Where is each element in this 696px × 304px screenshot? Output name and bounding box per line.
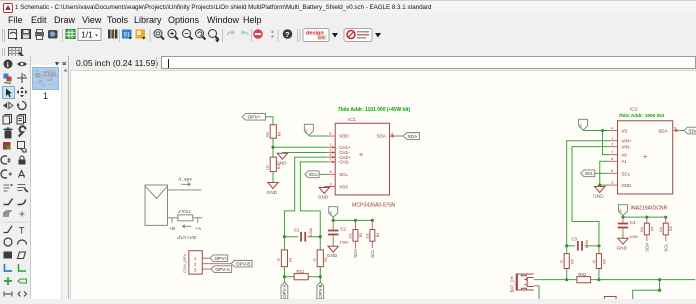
flag SDA (IC2) — [684, 127, 696, 134]
shunt RS1 (info drawing) — [167, 209, 202, 223]
svg-text:3: 3 — [611, 181, 613, 185]
svg-text:C2: C2 — [340, 226, 346, 231]
svg-text:IC2: IC2 — [630, 106, 638, 112]
current direction arrow — [182, 225, 191, 228]
svg-text:GND: GND — [276, 161, 287, 167]
flag OPV+ (connector) — [210, 255, 228, 262]
flag OPV-A (net) — [281, 282, 288, 299]
svg-text:GND: GND — [621, 183, 632, 188]
svg-text:VS: VS — [621, 129, 627, 134]
junction C2 top — [332, 219, 335, 222]
BAT_CH pin stubs — [524, 280, 537, 286]
designlink button — [303, 29, 329, 42]
pin dot SDA (IC2) — [675, 129, 677, 131]
svg-text:100n: 100n — [584, 240, 589, 249]
svg-text:SDA: SDA — [658, 129, 667, 134]
pin dot SDA (IC1) — [392, 135, 394, 137]
svg-text:8: 8 — [330, 153, 332, 157]
wire R1 to flag — [283, 267, 285, 282]
undo/redo disabled — [227, 31, 234, 36]
svg-text:8: 8 — [611, 157, 613, 161]
svg-text:VSS: VSS — [339, 184, 348, 189]
svg-text:5V: 5V — [619, 208, 623, 213]
junction divider node — [271, 146, 274, 149]
resistor R4 — [365, 220, 379, 248]
capacitor C1 — [284, 227, 320, 241]
svg-text:C4: C4 — [630, 220, 636, 225]
svg-text:R4: R4 — [376, 233, 380, 237]
svg-text:RS1: RS1 — [181, 209, 191, 215]
svg-text:CON_OPV: CON_OPV — [182, 253, 187, 273]
resistor R8 — [659, 217, 673, 241]
svg-text:i: i — [7, 61, 9, 69]
svg-text:GND: GND — [318, 194, 329, 200]
svg-text:C3: C3 — [571, 237, 577, 242]
svg-text:OPV-A: OPV-A — [215, 267, 230, 273]
svg-text:SDA: SDA — [353, 249, 358, 258]
svg-text:2: 2 — [330, 148, 332, 152]
junction RS1 left — [283, 275, 286, 278]
connector BAT_CH — [516, 274, 533, 290]
wire C1 to R1 — [283, 237, 285, 250]
svg-text:R3: R3 — [359, 233, 363, 237]
IC1 MCP3426 box — [335, 123, 389, 195]
svg-text:A0: A0 — [621, 153, 627, 158]
svg-text:2: 2 — [611, 143, 613, 147]
ground (IC2) — [593, 186, 605, 199]
svg-text:SCL: SCL — [664, 243, 669, 252]
resistor R5 — [560, 246, 575, 280]
svg-text:OPV-A: OPV-A — [282, 284, 287, 297]
svg-text:4: 4 — [611, 126, 613, 130]
junction RS1 right — [319, 275, 322, 278]
svg-text:20k: 20k — [659, 227, 663, 233]
flag OPV+ (divider input) — [242, 114, 265, 121]
sheet combo — [78, 29, 101, 41]
wire VIN+ — [567, 141, 610, 246]
svg-text:5V: 5V — [579, 123, 583, 128]
svg-text:OPV-B: OPV-B — [236, 262, 251, 268]
svg-text:5V: 5V — [305, 128, 309, 133]
resistor R2 — [313, 250, 329, 267]
wire battery bus — [537, 279, 695, 281]
svg-text:RS1: RS1 — [296, 269, 305, 274]
resistor R3 — [349, 220, 363, 248]
wire VDD — [309, 135, 327, 137]
svg-text:10: 10 — [277, 258, 281, 262]
svg-text:R8: R8 — [669, 226, 673, 230]
svg-text:BAT_CH: BAT_CH — [510, 276, 515, 292]
svg-text:SDA: SDA — [377, 134, 386, 139]
svg-text:GND: GND — [327, 253, 338, 259]
svg-text:2: 2 — [194, 262, 197, 267]
svg-text:7bits Addr: 1101 000 (+R/W bi: 7bits Addr: 1101 000 (+R/W bit) — [338, 107, 411, 113]
flag OPV-B (connector) — [231, 260, 252, 267]
resistor divider top — [266, 125, 282, 138]
current arrow d_agv — [178, 177, 192, 186]
resistor RS1 — [284, 269, 320, 280]
wire divider node — [273, 138, 327, 157]
svg-text:SCL: SCL — [309, 172, 318, 177]
zoom redraw — [196, 30, 206, 40]
svg-text:INA219AIDCNR: INA219AIDCNR — [630, 205, 667, 211]
solar panel (info drawing) — [145, 185, 167, 225]
svg-text:C1: C1 — [294, 227, 300, 232]
IC2 origin cross — [643, 155, 647, 159]
wire C1 to R2 — [319, 237, 321, 250]
blue layer icon — [122, 30, 132, 40]
resistor R1 — [277, 250, 293, 267]
svg-text:10: 10 — [592, 260, 596, 264]
IC2 pin names — [621, 129, 667, 189]
junction load corner — [658, 289, 661, 292]
svg-text:SCL: SCL — [339, 172, 348, 177]
ground (IC1 VSS) — [318, 187, 330, 200]
svg-text:5: 5 — [330, 170, 332, 174]
wire A0 tie — [603, 131, 610, 155]
svg-text:MCP3426A0-E/SN: MCP3426A0-E/SN — [352, 202, 395, 208]
svg-text:VIN+: VIN+ — [621, 139, 631, 144]
svg-text:R5: R5 — [570, 259, 574, 263]
svg-text:VIN-: VIN- — [621, 144, 630, 149]
zoom select — [209, 30, 220, 43]
svg-text:91k: 91k — [266, 131, 270, 137]
svg-text:OPV+: OPV+ — [214, 256, 227, 262]
wire supply rail 2 — [623, 216, 666, 218]
flag SCL (IC1) — [305, 171, 319, 178]
svg-text:T: T — [19, 226, 25, 237]
junction R4 top — [371, 219, 374, 222]
junction R7 top — [645, 216, 648, 219]
svg-text:GND: GND — [616, 246, 627, 252]
svg-text:100n: 100n — [308, 228, 313, 237]
ground (divider) — [267, 183, 279, 197]
wire supply rail — [333, 217, 372, 220]
ground (C4) — [616, 238, 628, 251]
svg-text:7bits Addr: 1000 001: 7bits Addr: 1000 001 — [618, 113, 664, 119]
svg-text:20k: 20k — [640, 227, 644, 233]
junction GND/A1 — [598, 184, 601, 187]
stop icon — [253, 29, 263, 39]
svg-text:A1: A1 — [621, 159, 627, 164]
svg-text:R6: R6 — [603, 259, 607, 263]
supply 5V (IC2 VS) — [579, 119, 588, 130]
save icon — [22, 30, 31, 39]
zoom fit — [154, 30, 164, 40]
pin 1 stub — [202, 257, 209, 259]
connector CON_OPV — [182, 251, 202, 274]
junction R6 bottom — [597, 278, 600, 281]
svg-text:+B: +B — [169, 226, 176, 232]
zoom out — [183, 30, 193, 40]
orange layer icon — [136, 30, 146, 40]
wire OPV+ to divider — [266, 117, 273, 125]
svg-text:3: 3 — [194, 267, 197, 272]
junction C1 right — [319, 235, 322, 238]
IC2 INA219 box — [617, 121, 672, 194]
pin 2 stub — [202, 263, 231, 265]
svg-text:7: 7 — [330, 158, 332, 162]
IC1 input pin arrows — [332, 146, 335, 163]
svg-text:20k: 20k — [349, 233, 353, 239]
wire panel top lead (info) — [167, 189, 201, 191]
wire SDA (IC1) — [396, 135, 403, 137]
open icon — [9, 30, 18, 41]
svg-text:100n: 100n — [339, 240, 348, 245]
wire VS — [583, 130, 609, 132]
supply 5V (IC1 VDD) — [304, 124, 313, 135]
wire BAT- down — [537, 286, 539, 299]
svg-text:SCL: SCL — [370, 249, 375, 258]
capacitor C2 — [328, 220, 348, 246]
svg-text:SDA: SDA — [645, 243, 650, 252]
junction C3 right — [597, 244, 600, 247]
junction C1 left — [283, 235, 286, 238]
resistor R7 — [640, 217, 654, 241]
wire CH2- — [300, 162, 327, 237]
svg-text:link: link — [318, 35, 326, 40]
IC1 origin cross — [359, 153, 363, 157]
supply 5V (C4 rail) — [618, 205, 627, 216]
svg-text:GND: GND — [593, 193, 604, 199]
grid green icon — [66, 30, 75, 39]
svg-text:CH2-: CH2- — [339, 160, 350, 165]
help icon — [283, 29, 293, 39]
svg-text:1: 1 — [194, 256, 197, 261]
IC1 pin numbers — [329, 132, 393, 186]
ulp icon — [108, 30, 117, 39]
flag OPV-B (net) — [317, 282, 324, 299]
ground (C2) — [327, 246, 339, 259]
wire VIN- — [572, 147, 609, 246]
svg-text:VDD: VDD — [339, 134, 349, 139]
flag SDA (IC1) — [403, 133, 419, 140]
IC2 pin stubs — [610, 131, 680, 186]
zoom in — [168, 30, 178, 40]
svg-text:3: 3 — [330, 182, 332, 186]
IC2 pin numbers — [611, 126, 676, 185]
junction load branch — [658, 278, 661, 281]
flag SCL (IC2) — [581, 170, 595, 177]
svg-text:R7: R7 — [650, 226, 654, 230]
svg-text:SCL: SCL — [621, 171, 630, 176]
junction C4 top — [621, 216, 624, 219]
flag OPV-A (connector) — [211, 266, 232, 273]
BAT_CH polarity mark — [524, 278, 527, 281]
resistor (partial, bottom edge) — [604, 297, 616, 301]
wire A1 tie — [600, 161, 610, 185]
wire GND pin — [600, 184, 610, 186]
wire CH1- to gnd — [282, 151, 327, 154]
resistor divider bottom — [266, 157, 282, 171]
image icon — [48, 30, 58, 39]
svg-text:SDA: SDA — [689, 128, 696, 133]
svg-text:RS2: RS2 — [578, 272, 587, 277]
svg-text:OPV+: OPV+ — [248, 115, 261, 121]
svg-text:OPV-B: OPV-B — [318, 284, 323, 297]
svg-text:IC1: IC1 — [348, 117, 356, 123]
svg-text:100n: 100n — [629, 234, 638, 239]
second button — [344, 29, 372, 42]
capacitor C3 — [567, 237, 599, 251]
wire CH2+ — [284, 157, 327, 237]
wire divider to gnd — [272, 172, 274, 183]
svg-text:SCL: SCL — [585, 171, 594, 176]
svg-text:20k: 20k — [365, 233, 369, 239]
svg-text:11k: 11k — [266, 165, 270, 171]
junction R5 bottom — [565, 278, 568, 281]
svg-text:6: 6 — [329, 132, 331, 136]
svg-text:R9: R9 — [277, 132, 281, 136]
wire R2 to flag — [319, 267, 321, 282]
wire SCL (IC2) — [595, 172, 610, 174]
junction VS/A0 — [601, 129, 604, 132]
svg-text:7: 7 — [611, 151, 613, 155]
svg-text:?: ? — [285, 30, 290, 39]
pin 3 stub — [202, 268, 210, 270]
svg-text:dVA>VB: dVA>VB — [177, 235, 196, 241]
resistor R6 — [592, 246, 607, 280]
junction C3 left — [565, 244, 568, 247]
wire load branch — [633, 280, 660, 299]
svg-text:1/1: 1/1 — [81, 30, 93, 40]
svg-text:1: 1 — [330, 143, 332, 147]
svg-text:10: 10 — [560, 260, 564, 264]
svg-text:SDA: SDA — [408, 134, 418, 139]
ground (CH1-) — [276, 153, 288, 166]
print icon — [35, 30, 44, 40]
wire SDA (IC2) — [679, 130, 684, 132]
svg-text:10: 10 — [313, 258, 317, 262]
svg-text:1: 1 — [611, 137, 613, 141]
svg-text:5V: 5V — [329, 210, 333, 215]
wire SCL (IC1) — [319, 173, 327, 175]
svg-text:R1: R1 — [288, 257, 292, 261]
svg-text:d_agv: d_agv — [178, 177, 192, 183]
IC1 pin stubs — [324, 136, 396, 186]
capacitor C4 — [618, 217, 638, 239]
svg-text:6: 6 — [611, 169, 613, 173]
junction R8 top — [664, 216, 667, 219]
IC1 pin names — [339, 134, 386, 190]
resistor RS2 — [577, 272, 591, 283]
svg-text:GND: GND — [267, 190, 278, 196]
junction R3 top — [354, 219, 357, 222]
svg-text:+A: +A — [195, 226, 202, 232]
supply 5V (C2 rail) — [329, 207, 338, 218]
